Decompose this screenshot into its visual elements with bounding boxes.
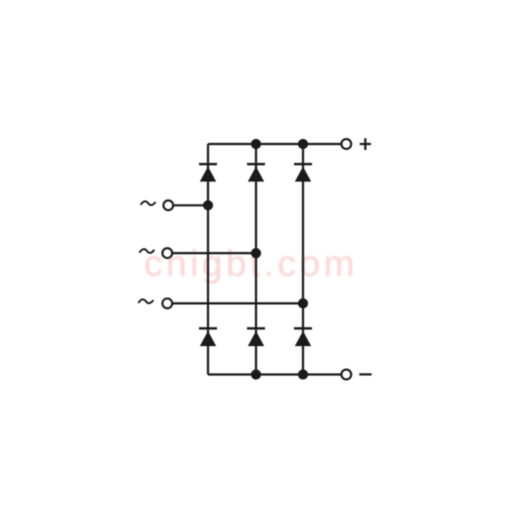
label - bbox=[359, 373, 371, 375]
diode D5 (top, column 3) bbox=[294, 163, 312, 182]
junction top rail / column 3 bbox=[298, 139, 308, 149]
terminal AC phase 2 bbox=[162, 248, 172, 258]
label + bbox=[360, 138, 371, 150]
diode D1 (top, column 1) bbox=[199, 163, 217, 182]
junction bottom rail / column 2 bbox=[251, 369, 261, 379]
terminal + (DC positive) bbox=[341, 139, 351, 149]
terminal AC phase 1 bbox=[163, 200, 173, 210]
label ~ phase 1 bbox=[141, 201, 156, 205]
diode D3 (top, column 2) bbox=[247, 163, 265, 182]
wire column 1 vertical bbox=[207, 144, 209, 375]
wire AC input 1 bbox=[174, 204, 209, 206]
wire column 3 vertical bbox=[302, 144, 304, 375]
diode D2 (bottom, column 3) bbox=[294, 327, 312, 346]
terminal AC phase 3 bbox=[162, 299, 172, 309]
label ~ phase 3 bbox=[138, 299, 153, 303]
watermark cnigbt.com bbox=[144, 243, 358, 285]
wire bottom rail (- bus) bbox=[208, 373, 341, 375]
wire top rail (+ bus) bbox=[208, 143, 341, 145]
junction AC1 / column 1 bbox=[203, 200, 213, 210]
wire AC input 3 bbox=[173, 302, 304, 304]
junction bottom rail / column 3 bbox=[298, 369, 308, 379]
wire AC input 2 bbox=[173, 252, 257, 254]
diode D4 (bottom, column 1) bbox=[199, 327, 217, 346]
label ~ phase 2 bbox=[139, 249, 154, 253]
junction AC3 / column 3 bbox=[298, 298, 308, 308]
terminal - (DC negative) bbox=[341, 370, 351, 380]
junction AC2 / column 2 bbox=[251, 248, 261, 258]
diode D6 (bottom, column 2) bbox=[247, 327, 265, 346]
wire column 2 vertical bbox=[255, 144, 257, 375]
junction top rail / column 2 bbox=[251, 139, 261, 149]
